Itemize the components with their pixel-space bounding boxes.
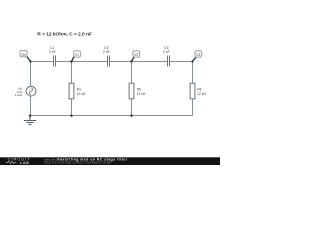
svg-text:http://circuitlab.com/c/7m28aa: http://circuitlab.com/c/7m28aa1r2wqh <box>44 161 111 165</box>
voltage source Uin <box>15 86 36 97</box>
svg-text:2 nF: 2 nF <box>103 50 110 54</box>
svg-text:R = 12 kOhm, C = 2.0 nF: R = 12 kOhm, C = 2.0 nF <box>37 32 92 38</box>
svg-text:R1: R1 <box>77 88 81 92</box>
resistor R5 <box>129 83 146 99</box>
capacitor C5 <box>103 46 110 67</box>
node V2 <box>132 51 140 62</box>
svg-text:12 kΩ: 12 kΩ <box>77 92 86 96</box>
node Vin <box>20 50 31 61</box>
wire R5 vertical <box>131 62 133 116</box>
wire R1 vertical <box>71 62 73 116</box>
svg-text:V1: V1 <box>75 53 79 57</box>
resistor R6 <box>190 83 206 99</box>
svg-text:LAB: LAB <box>20 161 29 165</box>
capacitor C1 <box>49 46 56 67</box>
svg-text:2 nF: 2 nF <box>163 50 170 54</box>
svg-text:R5: R5 <box>137 88 141 92</box>
svg-text:R6: R6 <box>197 88 201 92</box>
junction top R1 <box>70 60 72 62</box>
wire R6 vertical <box>192 62 194 116</box>
junction top R5 <box>130 60 132 62</box>
node V3 <box>193 51 202 62</box>
junction bottom ground <box>29 115 31 117</box>
resistor R1 <box>69 83 86 99</box>
capacitor C6 <box>163 46 170 67</box>
CircuitLab logo <box>6 157 31 165</box>
wire bottom rail <box>30 115 193 117</box>
svg-text:1 kHz: 1 kHz <box>15 93 23 97</box>
wire source vertical <box>30 62 32 116</box>
footer bar <box>0 157 220 165</box>
svg-text:V2: V2 <box>134 53 138 57</box>
junction top V3 corner <box>191 60 193 62</box>
svg-text:12 kΩ: 12 kΩ <box>137 92 146 96</box>
svg-text:V3: V3 <box>196 53 200 57</box>
junction bottom R1 <box>70 115 72 117</box>
svg-text:Vin: Vin <box>21 53 26 57</box>
junction bottom R5 <box>130 115 132 117</box>
wire top rail <box>31 61 193 63</box>
junction top source corner <box>29 60 31 62</box>
node V1 <box>72 51 81 62</box>
svg-text:12 kΩ: 12 kΩ <box>197 92 206 96</box>
ground <box>24 116 36 125</box>
svg-text:2 nF: 2 nF <box>49 50 56 54</box>
